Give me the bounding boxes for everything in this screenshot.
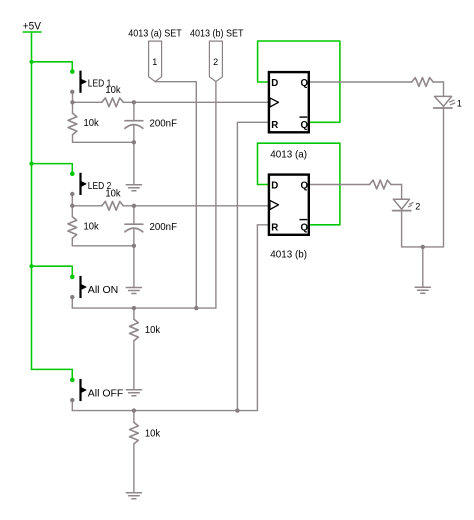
svg-text:Q: Q xyxy=(301,120,309,131)
svg-text:4013 (a): 4013 (a) xyxy=(270,149,307,161)
svg-text:D: D xyxy=(271,181,278,192)
svg-text:200nF: 200nF xyxy=(150,221,178,233)
svg-text:R: R xyxy=(271,120,278,131)
svg-text:2: 2 xyxy=(415,201,420,211)
svg-text:1: 1 xyxy=(457,98,462,108)
svg-text:4013 (b) SET: 4013 (b) SET xyxy=(190,28,244,40)
svg-text:10k: 10k xyxy=(145,324,161,336)
svg-text:10k: 10k xyxy=(84,220,100,232)
svg-text:200nF: 200nF xyxy=(150,118,178,130)
svg-text:10k: 10k xyxy=(84,117,100,129)
svg-text:D: D xyxy=(271,78,278,89)
svg-text:4013 (b): 4013 (b) xyxy=(270,249,307,261)
svg-text:All ON: All ON xyxy=(88,284,119,296)
svg-text:+5V: +5V xyxy=(23,21,42,33)
svg-text:All OFF: All OFF xyxy=(88,387,124,399)
svg-text:4013 (a) SET: 4013 (a) SET xyxy=(128,28,182,40)
svg-text:Q: Q xyxy=(301,181,309,192)
svg-text:Q: Q xyxy=(301,78,309,89)
svg-text:10k: 10k xyxy=(105,188,121,200)
svg-text:10k: 10k xyxy=(145,427,161,439)
svg-text:Q: Q xyxy=(301,223,309,234)
svg-text:2: 2 xyxy=(213,57,218,67)
svg-text:1: 1 xyxy=(152,57,157,67)
svg-text:10k: 10k xyxy=(105,84,121,96)
svg-text:R: R xyxy=(271,223,278,234)
